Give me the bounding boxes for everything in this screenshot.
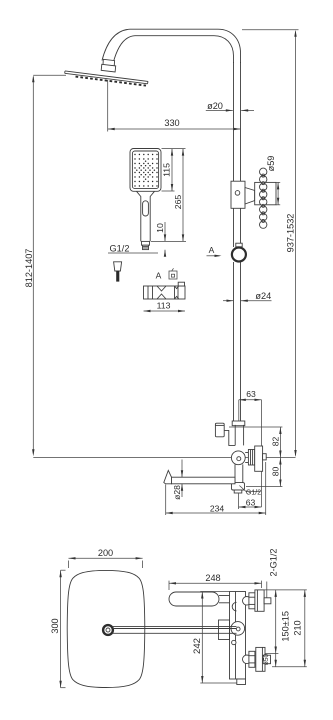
svg-text:G1/2: G1/2 <box>246 489 261 496</box>
svg-text:63: 63 <box>246 497 256 507</box>
svg-text:63: 63 <box>246 389 256 399</box>
svg-text:200: 200 <box>98 548 113 558</box>
svg-text:210: 210 <box>293 620 303 635</box>
svg-text:330: 330 <box>164 118 179 128</box>
svg-text:115: 115 <box>162 163 172 177</box>
svg-text:A: A <box>209 245 215 255</box>
svg-text:937-1532: 937-1532 <box>286 214 296 253</box>
svg-text:A: A <box>156 271 162 281</box>
svg-text:248: 248 <box>205 573 220 583</box>
svg-text:ø24: ø24 <box>255 291 271 301</box>
svg-text:300: 300 <box>50 618 60 633</box>
svg-text:ø59: ø59 <box>266 156 276 172</box>
svg-text:2-G1/2: 2-G1/2 <box>269 548 279 576</box>
svg-text:82: 82 <box>270 437 280 447</box>
svg-text:113: 113 <box>157 301 171 311</box>
svg-text:234: 234 <box>210 503 225 513</box>
svg-text:80: 80 <box>270 467 280 477</box>
svg-text:812-1407: 812-1407 <box>24 249 34 288</box>
svg-text:ø50: ø50 <box>263 654 270 666</box>
svg-text:150±15: 150±15 <box>281 611 291 642</box>
svg-text:ø20: ø20 <box>207 101 223 111</box>
svg-text:242: 242 <box>192 638 203 654</box>
svg-text:ø28: ø28 <box>172 485 182 500</box>
svg-text:265: 265 <box>173 195 183 210</box>
svg-text:G1/2: G1/2 <box>110 244 130 254</box>
svg-text:10: 10 <box>155 223 165 233</box>
